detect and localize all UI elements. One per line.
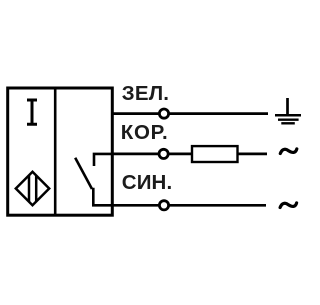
AC source symbol (N) bbox=[280, 203, 297, 208]
wire ZEL (green) from body to ground bbox=[113, 112, 268, 115]
terminal ZEL bbox=[159, 109, 168, 118]
AC source symbol (L) bbox=[280, 149, 297, 154]
ground bbox=[275, 98, 301, 123]
svg-text:КОР.: КОР. bbox=[121, 121, 169, 144]
switch fixed contact (hook from KOR wire) bbox=[94, 154, 113, 166]
wire SIN (blue) to AC source N bbox=[113, 204, 266, 207]
wire KOR (brown) from body to resistor bbox=[113, 153, 192, 156]
sensor internal divider bbox=[54, 87, 57, 216]
resistor load R bbox=[192, 146, 238, 162]
wire switch blade to SIN terminal bbox=[93, 188, 113, 206]
wire resistor to AC source L bbox=[238, 153, 268, 156]
terminal KOR bbox=[159, 149, 168, 158]
switch blade bbox=[75, 158, 92, 189]
symbol I (current output) bbox=[27, 100, 37, 124]
sensor body outline bbox=[8, 88, 113, 215]
inductive sensing element (diamond) bbox=[16, 172, 49, 205]
svg-text:СИН.: СИН. bbox=[122, 171, 172, 194]
svg-text:ЗЕЛ.: ЗЕЛ. bbox=[122, 82, 169, 105]
terminal SIN bbox=[159, 201, 168, 210]
